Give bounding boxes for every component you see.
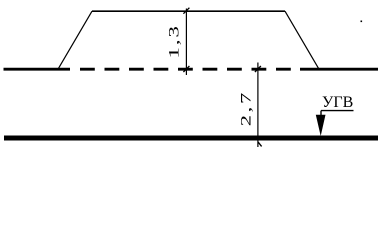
tick at bottom of dimension 2,7: [258, 142, 262, 146]
svg-text:УГВ: УГВ: [322, 94, 353, 111]
embankment right slope: [285, 11, 319, 69]
groundwater arrow head: [316, 115, 326, 136]
embankment left slope: [58, 11, 92, 69]
small dot artifact top right: [361, 21, 363, 23]
groundwater (bottom) thick line: [4, 136, 378, 141]
tick at top of dimension 2,7: [255, 66, 261, 72]
tick at bottom of dimension 1,3: [183, 66, 189, 72]
underline of УГВ: [321, 110, 354, 112]
tick at top of dimension 1,3: [183, 8, 189, 14]
svg-text:2,7: 2,7: [238, 90, 254, 126]
svg-text:1,3: 1,3: [166, 24, 182, 58]
ground line dashed segment: [80, 68, 293, 71]
ground line solid right segment: [300, 68, 378, 71]
embankment top line: [92, 10, 285, 12]
ground line solid left segment: [4, 68, 71, 71]
dimension line 1,3 (vertical): [185, 9, 187, 76]
leader stem of УГВ marker: [320, 111, 322, 117]
dimension line 2,7 (vertical): [257, 63, 259, 148]
